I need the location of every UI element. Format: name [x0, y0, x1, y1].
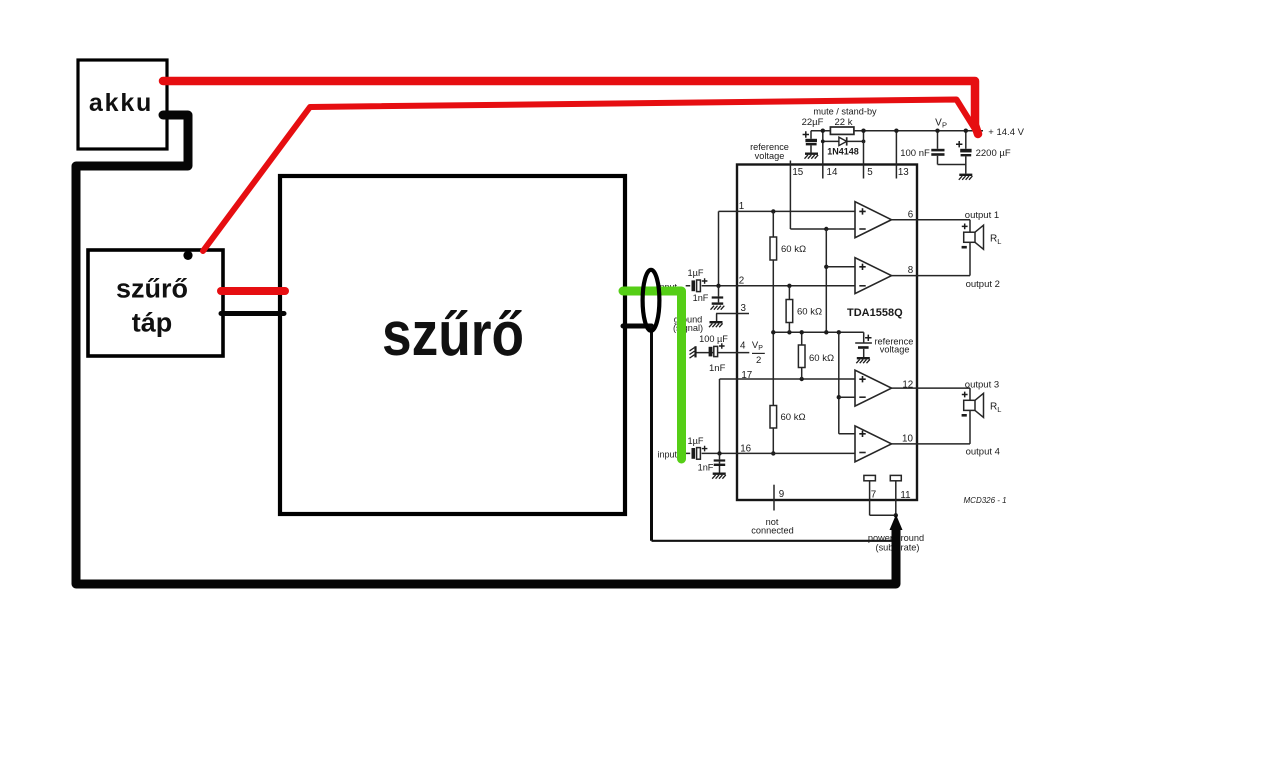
svg-text:17: 17 [741, 370, 752, 381]
svg-text:mute / stand-by: mute / stand-by [813, 107, 877, 117]
svg-text:1nF: 1nF [693, 293, 709, 303]
svg-text:output 1: output 1 [965, 210, 999, 221]
svg-text:6: 6 [908, 210, 914, 221]
svg-text:1nF: 1nF [698, 462, 714, 472]
svg-text:15: 15 [792, 167, 803, 178]
svg-text:8: 8 [908, 265, 914, 276]
svg-text:16: 16 [740, 443, 751, 454]
svg-text:akku: akku [89, 89, 153, 117]
svg-text:voltage: voltage [880, 345, 910, 355]
svg-text:TDA1558Q: TDA1558Q [847, 307, 903, 319]
svg-text:+ 14.4 V: + 14.4 V [988, 127, 1024, 138]
svg-text:L: L [997, 405, 1001, 414]
svg-text:100 nF: 100 nF [900, 148, 930, 159]
svg-text:1µF: 1µF [687, 268, 703, 278]
svg-text:14: 14 [827, 167, 838, 178]
svg-text:9: 9 [779, 489, 784, 500]
svg-text:7: 7 [871, 489, 876, 500]
svg-text:22 k: 22 k [835, 117, 853, 128]
svg-text:L: L [997, 237, 1001, 246]
svg-text:5: 5 [867, 167, 873, 178]
svg-text:P: P [758, 345, 763, 352]
svg-text:output 2: output 2 [966, 279, 1000, 290]
svg-text:output 4: output 4 [966, 447, 1000, 458]
svg-text:22µF: 22µF [802, 117, 824, 128]
svg-text:1nF: 1nF [709, 363, 726, 374]
svg-text:60 kΩ: 60 kΩ [809, 353, 834, 364]
svg-text:2200 µF: 2200 µF [976, 148, 1011, 159]
svg-text:voltage: voltage [755, 151, 785, 161]
svg-text:R: R [990, 402, 997, 413]
svg-text:13: 13 [898, 167, 909, 178]
svg-text:10: 10 [902, 434, 913, 445]
svg-text:100 µF: 100 µF [699, 334, 728, 344]
svg-text:P: P [942, 120, 947, 129]
svg-text:1µF: 1µF [687, 436, 703, 446]
svg-text:input: input [657, 449, 677, 459]
svg-text:output 3: output 3 [965, 379, 999, 390]
svg-text:60 kΩ: 60 kΩ [781, 412, 806, 423]
svg-text:2: 2 [739, 276, 744, 287]
svg-text:1N4148: 1N4148 [827, 146, 859, 156]
svg-text:MCD326 - 1: MCD326 - 1 [964, 496, 1007, 505]
svg-text:4: 4 [740, 341, 746, 352]
svg-text:táp: táp [132, 308, 173, 338]
svg-text:szűrő: szűrő [116, 274, 188, 304]
svg-text:60 kΩ: 60 kΩ [781, 244, 806, 255]
svg-text:3: 3 [740, 303, 746, 314]
svg-text:1: 1 [739, 201, 744, 212]
svg-text:2: 2 [756, 355, 761, 366]
svg-text:11: 11 [900, 490, 910, 501]
svg-text:szűrő: szűrő [382, 300, 524, 369]
svg-text:60 kΩ: 60 kΩ [797, 306, 822, 317]
svg-text:R: R [990, 234, 997, 245]
svg-text:connected: connected [751, 526, 793, 536]
